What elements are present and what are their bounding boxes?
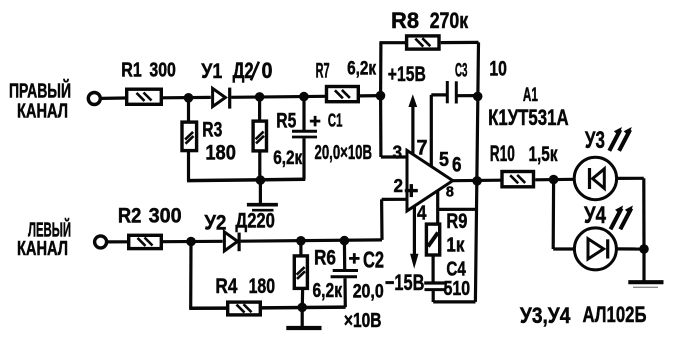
svg-text:+15В: +15В (388, 62, 426, 86)
svg-text:R8: R8 (391, 8, 419, 33)
svg-text:2: 2 (394, 175, 404, 196)
svg-text:К1УТ531А: К1УТ531А (488, 105, 568, 130)
svg-text:КАНАЛ: КАНАЛ (17, 100, 68, 122)
svg-text:R4: R4 (215, 274, 237, 298)
svg-text:20,0: 20,0 (353, 280, 384, 302)
svg-text:6: 6 (452, 153, 462, 177)
svg-text:А1: А1 (523, 85, 538, 106)
svg-text:×10В: ×10В (344, 310, 382, 332)
svg-text:6,2к: 6,2к (273, 148, 302, 169)
svg-text:180: 180 (249, 274, 276, 298)
svg-text:270к: 270к (430, 8, 469, 33)
svg-text:R5: R5 (276, 109, 296, 132)
svg-text:У1: У1 (201, 59, 222, 83)
svg-text:КАНАЛ: КАНАЛ (17, 238, 68, 260)
svg-text:АЛ102Б: АЛ102Б (583, 302, 647, 327)
svg-text:4: 4 (417, 202, 427, 225)
svg-text:8: 8 (446, 184, 454, 200)
svg-text:300: 300 (149, 204, 182, 228)
svg-text:3: 3 (393, 142, 403, 163)
svg-text:1к: 1к (446, 235, 465, 257)
svg-text:R9: R9 (446, 210, 467, 233)
svg-text:6,2к: 6,2к (313, 280, 343, 302)
svg-text:510: 510 (444, 278, 471, 300)
svg-text:R7: R7 (316, 59, 330, 82)
svg-text:R6: R6 (314, 245, 336, 269)
svg-text:0: 0 (262, 58, 273, 83)
svg-text:С3: С3 (455, 59, 468, 81)
svg-text:180: 180 (205, 141, 236, 165)
svg-text:С2: С2 (363, 247, 384, 273)
svg-text:ПРАВЫЙ: ПРАВЫЙ (9, 79, 71, 103)
svg-text:У3: У3 (585, 127, 605, 154)
svg-text:R2: R2 (118, 204, 142, 228)
svg-text:10: 10 (489, 57, 507, 80)
svg-text:У2: У2 (204, 212, 226, 235)
svg-text:У3,У4: У3,У4 (520, 303, 571, 328)
svg-text:R3: R3 (202, 119, 222, 142)
svg-text:7: 7 (417, 136, 428, 160)
svg-text:1,5к: 1,5к (529, 143, 558, 166)
svg-text:5: 5 (439, 149, 449, 171)
svg-text:С1: С1 (328, 110, 343, 131)
svg-text:300: 300 (149, 59, 176, 81)
svg-text:У4: У4 (584, 202, 606, 229)
svg-text:Д220: Д220 (235, 209, 275, 233)
svg-text:6,2к: 6,2к (347, 59, 376, 80)
svg-text:−15В: −15В (385, 270, 425, 295)
svg-text:R1: R1 (121, 59, 142, 81)
svg-text:20,0×10В: 20,0×10В (315, 142, 373, 164)
svg-text:R10: R10 (490, 141, 515, 166)
